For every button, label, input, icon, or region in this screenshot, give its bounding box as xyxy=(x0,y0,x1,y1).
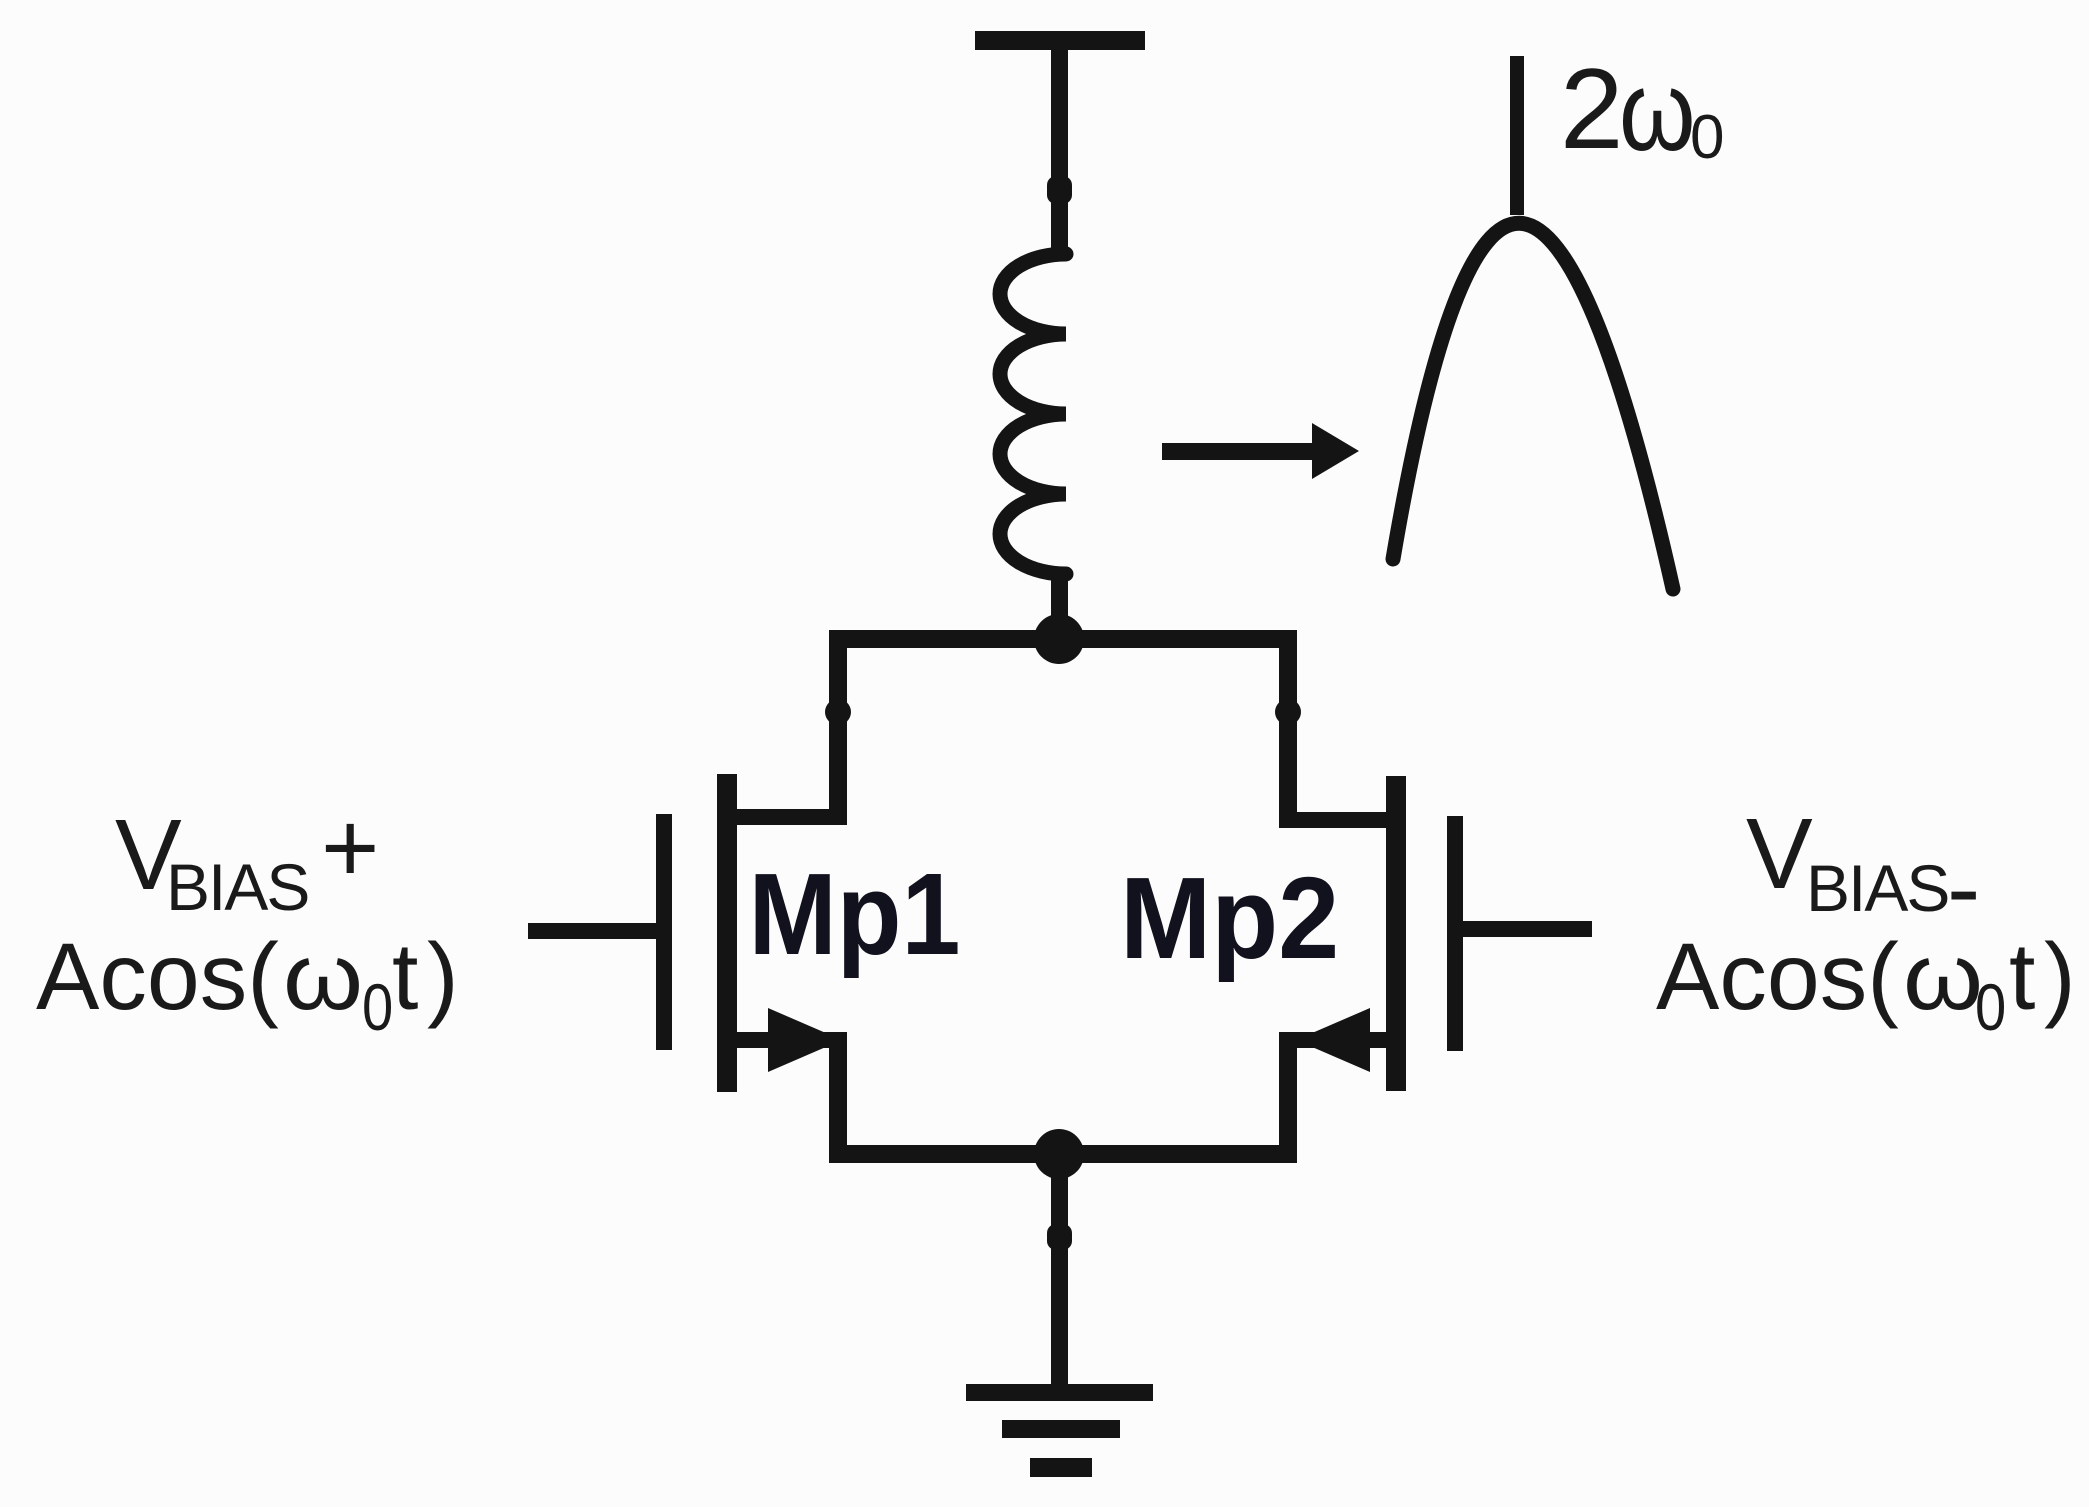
svg-text:Mp2: Mp2 xyxy=(1120,853,1339,983)
svg-text:ω: ω xyxy=(1903,923,1983,1030)
svg-text:): ) xyxy=(2044,924,2076,1030)
wire bottom rail of pair xyxy=(829,1145,1297,1163)
transistor Mp1 xyxy=(528,774,847,1092)
ground xyxy=(966,1384,1153,1477)
VDD supply rail xyxy=(975,31,1145,50)
svg-text:ω: ω xyxy=(283,923,363,1030)
wire right source riser xyxy=(1279,1032,1297,1163)
arrow to spectrum xyxy=(1162,423,1359,479)
svg-text:BIAS: BIAS xyxy=(166,850,308,924)
wire left drain riser xyxy=(825,630,851,825)
label VBIAS+ left xyxy=(115,792,379,924)
svg-text:ω: ω xyxy=(1619,47,1696,175)
svg-text:+: + xyxy=(321,792,379,904)
svg-text:0: 0 xyxy=(362,971,393,1044)
svg-text:0: 0 xyxy=(1690,103,1724,172)
svg-text:0: 0 xyxy=(1975,971,2006,1044)
svg-text:V: V xyxy=(1746,798,1813,910)
svg-text:Acos(: Acos( xyxy=(1656,924,1899,1030)
inductor L1 xyxy=(1000,254,1066,574)
svg-text:BIAS: BIAS xyxy=(1806,851,1948,925)
svg-text:2: 2 xyxy=(1560,46,1623,173)
node source junction dot xyxy=(1034,1129,1084,1179)
label 2w0 xyxy=(1560,46,1724,175)
label Mp1 xyxy=(749,849,961,979)
spectrum marker line 2w0 xyxy=(1510,56,1524,215)
label Acos(w0t) left xyxy=(36,923,459,1044)
node drain junction dot xyxy=(1034,614,1084,664)
transistor Mp2 xyxy=(1279,776,1592,1091)
svg-text:Acos(: Acos( xyxy=(36,924,279,1030)
svg-text:): ) xyxy=(427,924,459,1030)
wire VDD to inductor xyxy=(1047,40,1072,258)
wire top rail of pair xyxy=(829,630,1297,648)
label VBIAS- right xyxy=(1746,798,1980,944)
label Acos(w0t) right xyxy=(1656,923,2076,1044)
label Mp2 xyxy=(1120,853,1339,983)
svg-text:t: t xyxy=(392,924,418,1030)
wire source node to ground xyxy=(1047,1154,1072,1393)
wire left source riser xyxy=(829,1032,847,1163)
svg-text:t: t xyxy=(2009,924,2035,1030)
spectrum resonance curve xyxy=(1393,223,1673,589)
svg-text:Mp1: Mp1 xyxy=(749,849,961,979)
wire right drain riser xyxy=(1275,630,1301,828)
wire inductor to drain node xyxy=(1051,568,1068,639)
